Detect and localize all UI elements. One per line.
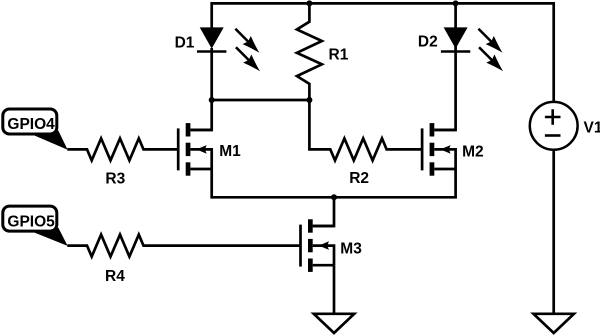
svg-text:D1: D1 <box>175 34 195 51</box>
svg-text:M3: M3 <box>340 240 362 257</box>
svg-text:M2: M2 <box>462 143 484 160</box>
svg-text:R2: R2 <box>349 170 369 187</box>
svg-text:R4: R4 <box>105 268 125 285</box>
svg-text:R3: R3 <box>105 171 125 188</box>
svg-text:D2: D2 <box>418 33 438 50</box>
svg-text:M1: M1 <box>219 143 241 160</box>
svg-text:GPIO4: GPIO4 <box>7 116 55 133</box>
svg-text:GPIO5: GPIO5 <box>7 213 55 230</box>
svg-text:R1: R1 <box>329 46 349 63</box>
svg-text:V1: V1 <box>584 119 600 136</box>
